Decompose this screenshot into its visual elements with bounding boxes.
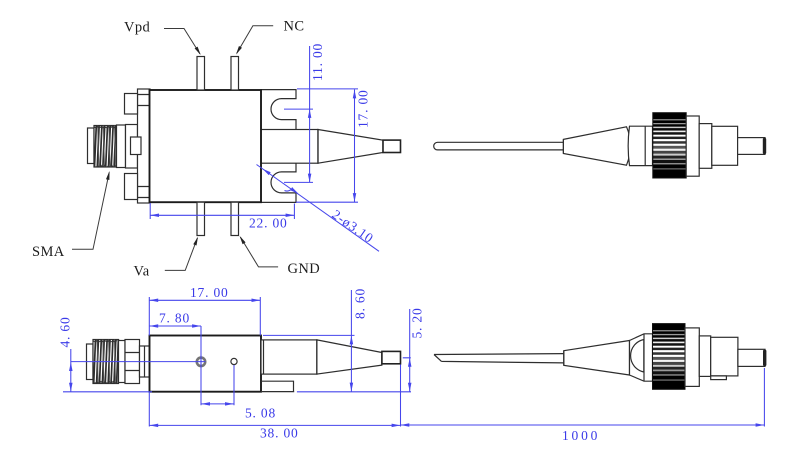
- svg-text:5. 08: 5. 08: [245, 406, 276, 421]
- fiber boot (top): [563, 127, 630, 165]
- svg-text:SMA: SMA: [32, 244, 65, 260]
- pin Va: [197, 202, 205, 235]
- hole 2: [231, 358, 237, 364]
- top view: SMA threaded barrel: [94, 126, 117, 168]
- top view: SMA left cap: [88, 128, 95, 164]
- dim 5.08: [201, 355, 276, 421]
- svg-text:Va: Va: [134, 264, 150, 280]
- ferrule (top): [738, 138, 765, 155]
- connector rear cap (bottom): [630, 334, 653, 381]
- top view: SMA barrel section: [117, 125, 126, 168]
- bottom view: body: [150, 336, 262, 392]
- dim 1000: [401, 368, 765, 443]
- connector body (bottom): [711, 337, 738, 376]
- knurled nut (top): [653, 113, 686, 178]
- dim 11.00: [284, 43, 325, 182]
- top view: bracket bottom tab: [125, 174, 138, 200]
- top view: fiber snout: [261, 130, 318, 164]
- hole 1 (with crosshair): [197, 358, 205, 366]
- top view: mounting flange with slots: [261, 90, 296, 203]
- bottom view: SMA hex nut: [125, 340, 140, 384]
- bottom view: snout: [261, 340, 317, 374]
- svg-text:GND: GND: [288, 261, 321, 277]
- centerline (blue): [71, 361, 206, 363]
- bottom view: SMA threaded barrel: [93, 340, 119, 384]
- pin Vpd: [197, 57, 205, 91]
- label Vpd: [124, 20, 202, 56]
- nut ring (top): [686, 116, 699, 176]
- bottom view: SMA barrel section: [119, 341, 126, 383]
- label NC: [234, 19, 304, 56]
- bottom view: boot tip: [382, 351, 401, 363]
- svg-text:17. 00: 17. 00: [190, 285, 229, 300]
- pin GND: [231, 202, 239, 235]
- bottom view: boot cone: [317, 340, 382, 374]
- label GND: [238, 235, 320, 277]
- label 2-o3.10 leader: [257, 165, 380, 252]
- connector body (top): [712, 126, 738, 165]
- dim 5.20: [403, 308, 425, 392]
- ferrule tip (bottom): [763, 350, 766, 367]
- bottom view: bottom plate notch: [261, 381, 294, 391]
- label Va: [134, 236, 200, 280]
- top view: center notch: [131, 137, 142, 155]
- top view: bracket top tab: [125, 94, 138, 115]
- svg-text:7. 80: 7. 80: [159, 311, 190, 326]
- fiber cable (top): [434, 142, 564, 150]
- svg-text:5. 20: 5. 20: [410, 308, 425, 339]
- svg-text:1000: 1000: [562, 428, 600, 443]
- dim 17.00 (top view): [296, 89, 371, 202]
- svg-text:38. 00: 38. 00: [260, 426, 299, 441]
- fiber cable (bottom): [434, 354, 564, 363]
- bottom view: SMA left cap: [87, 344, 94, 380]
- top view: boot cone: [318, 130, 383, 164]
- dim 38.00: [149, 365, 400, 441]
- key tab (bottom): [711, 376, 727, 380]
- svg-text:4. 60: 4. 60: [58, 317, 73, 348]
- connector rear body (top): [628, 126, 652, 165]
- label SMA: [32, 171, 111, 260]
- dim 4.60: [58, 317, 153, 392]
- svg-text:NC: NC: [284, 19, 305, 35]
- nut ring (bottom): [685, 328, 699, 387]
- svg-text:22. 00: 22. 00: [249, 216, 288, 231]
- top view: body: [150, 90, 262, 202]
- svg-text:11. 00: 11. 00: [310, 43, 325, 81]
- top view: SMA flange: [126, 125, 138, 169]
- knurled nut (bottom): [653, 324, 686, 390]
- ferrule tip (top): [763, 138, 766, 154]
- top view: boot tip: [383, 140, 401, 152]
- top view: bracket plate: [138, 89, 151, 203]
- fiber boot (bottom): [564, 341, 630, 376]
- ferrule (bottom): [738, 349, 765, 366]
- svg-text:17. 00: 17. 00: [356, 89, 371, 128]
- svg-text:Vpd: Vpd: [124, 20, 151, 36]
- dim 17.00 (bottom view): [149, 285, 260, 336]
- dim 22.00: [150, 203, 294, 231]
- bottom view: washer step: [140, 346, 150, 377]
- dim 8.60: [263, 288, 411, 392]
- svg-text:8. 60: 8. 60: [353, 288, 368, 319]
- step section (bottom): [699, 336, 710, 377]
- dim 7.80: [149, 311, 201, 369]
- step section (top): [699, 124, 712, 169]
- pin NC: [231, 57, 239, 91]
